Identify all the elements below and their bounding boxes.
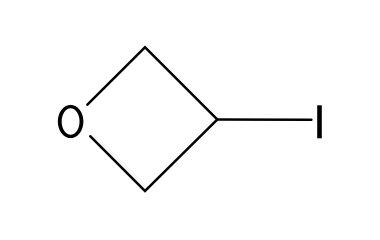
atom label O (ring oxygen) bbox=[58, 105, 84, 138]
atom label I (iodine) bbox=[317, 105, 322, 138]
wire: bond C3-I bbox=[217, 118, 311, 121]
wire: oxetane ring bonds O-C2, C2-C3, C3-C4, C4-O bbox=[87, 47, 217, 191]
